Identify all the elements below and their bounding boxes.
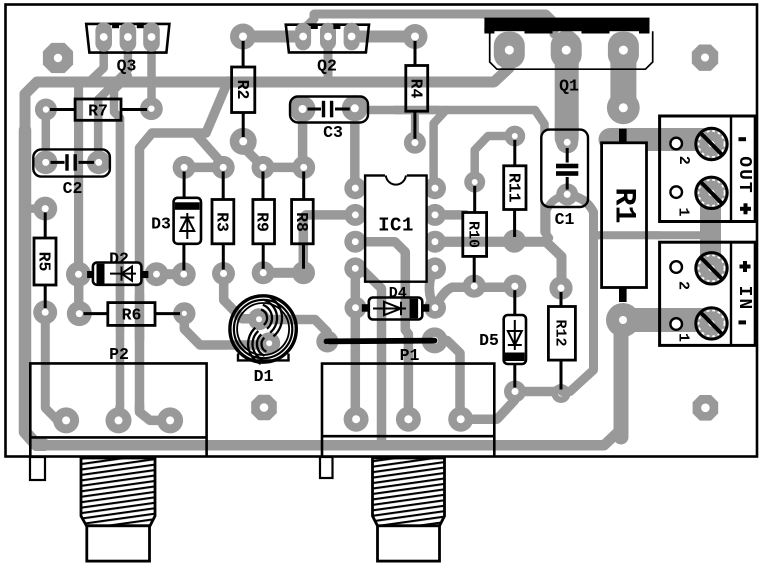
svg-text:C1: C1 — [555, 210, 575, 229]
svg-text:OUT: OUT — [734, 156, 754, 194]
svg-text:R4: R4 — [406, 79, 425, 99]
svg-text:D5: D5 — [479, 331, 499, 350]
svg-text:IC1: IC1 — [378, 215, 414, 237]
svg-text:D3: D3 — [151, 215, 171, 234]
svg-text:Q1: Q1 — [559, 77, 579, 96]
svg-text:IN: IN — [734, 286, 754, 312]
svg-text:R5: R5 — [35, 252, 54, 272]
svg-text:D4: D4 — [389, 285, 407, 302]
svg-text:P1: P1 — [400, 346, 420, 365]
svg-text:2: 2 — [675, 281, 692, 290]
svg-text:2: 2 — [675, 156, 692, 165]
svg-text:Q2: Q2 — [317, 57, 337, 76]
svg-text:C2: C2 — [63, 179, 83, 198]
svg-text:P2: P2 — [109, 345, 129, 364]
svg-text:R9: R9 — [253, 212, 272, 232]
svg-text:1: 1 — [675, 333, 692, 342]
svg-text:R8: R8 — [292, 212, 311, 232]
svg-text:R11: R11 — [505, 173, 524, 203]
svg-text:R7: R7 — [88, 102, 108, 121]
svg-text:R1: R1 — [606, 187, 640, 223]
svg-text:D1: D1 — [254, 367, 274, 386]
svg-text:R6: R6 — [122, 306, 142, 325]
svg-text:R12: R12 — [552, 319, 569, 346]
svg-text:R10: R10 — [464, 221, 481, 248]
svg-text:1: 1 — [675, 207, 692, 216]
svg-text:C3: C3 — [323, 123, 343, 142]
svg-text:Q3: Q3 — [117, 57, 137, 76]
svg-text:R2: R2 — [233, 80, 252, 100]
svg-text:D2: D2 — [109, 250, 129, 269]
svg-text:R3: R3 — [213, 212, 232, 232]
